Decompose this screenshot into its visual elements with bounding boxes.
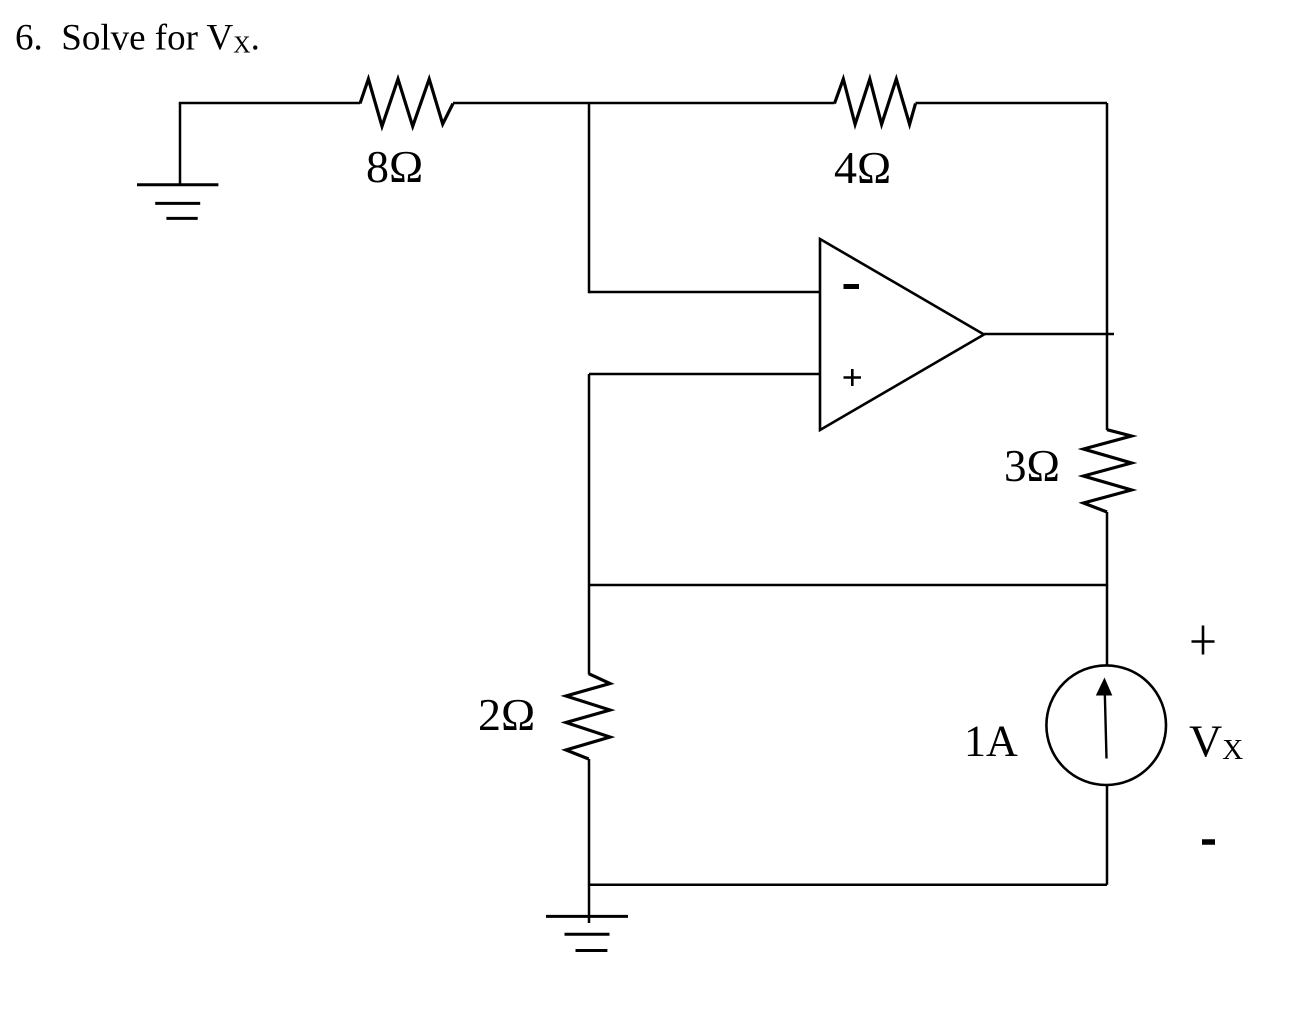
wire to inverting input	[589, 291, 820, 294]
wire R3 to mid node	[1106, 512, 1109, 586]
wire node A (R1 to R2)	[453, 102, 835, 105]
wire current source to bottom node	[1106, 785, 1109, 885]
svg-text:6. Solve for VX.: 6. Solve for VX.	[15, 18, 260, 59]
resistor R4 2ohm	[566, 674, 610, 759]
wire bottom node horizontal	[589, 883, 1107, 886]
op-amp minus marker	[844, 284, 860, 289]
wire mid node horizontal	[589, 584, 1107, 587]
wire R4 to bottom node	[588, 759, 591, 885]
wire ground stub top-left	[179, 103, 182, 185]
wire non-inverting branch vertical	[588, 374, 591, 674]
resistor R2 4ohm	[835, 79, 916, 124]
resistor R3 3ohm	[1084, 430, 1132, 512]
svg-text:VX: VX	[1189, 716, 1243, 767]
wire R2 to right rail	[916, 102, 1108, 105]
op-amp plus marker	[844, 369, 862, 386]
svg-text:1A: 1A	[964, 716, 1018, 765]
svg-text:3Ω: 3Ω	[1004, 441, 1060, 491]
svg-text:4Ω: 4Ω	[834, 142, 891, 193]
wire op-amp output	[984, 333, 1114, 336]
current source I1 circle	[1046, 665, 1166, 785]
wire inverting branch vertical	[588, 103, 591, 293]
wire top-left to R1	[179, 102, 360, 105]
label Vx minus	[1202, 839, 1215, 845]
wire mid node to current source	[1106, 585, 1109, 666]
svg-text:2Ω: 2Ω	[478, 689, 535, 740]
wire right rail vertical	[1106, 103, 1109, 430]
op-amp U1	[820, 239, 984, 430]
wire to non-inverting input	[589, 373, 820, 376]
svg-text:8Ω: 8Ω	[366, 141, 423, 192]
label Vx plus	[1192, 626, 1215, 655]
ground GND1 top-left	[137, 185, 218, 219]
current source arrow	[1105, 681, 1107, 759]
resistor R1 8ohm	[360, 79, 453, 126]
wire ground stub bottom	[588, 885, 591, 923]
ground GND2 bottom	[546, 916, 628, 950]
